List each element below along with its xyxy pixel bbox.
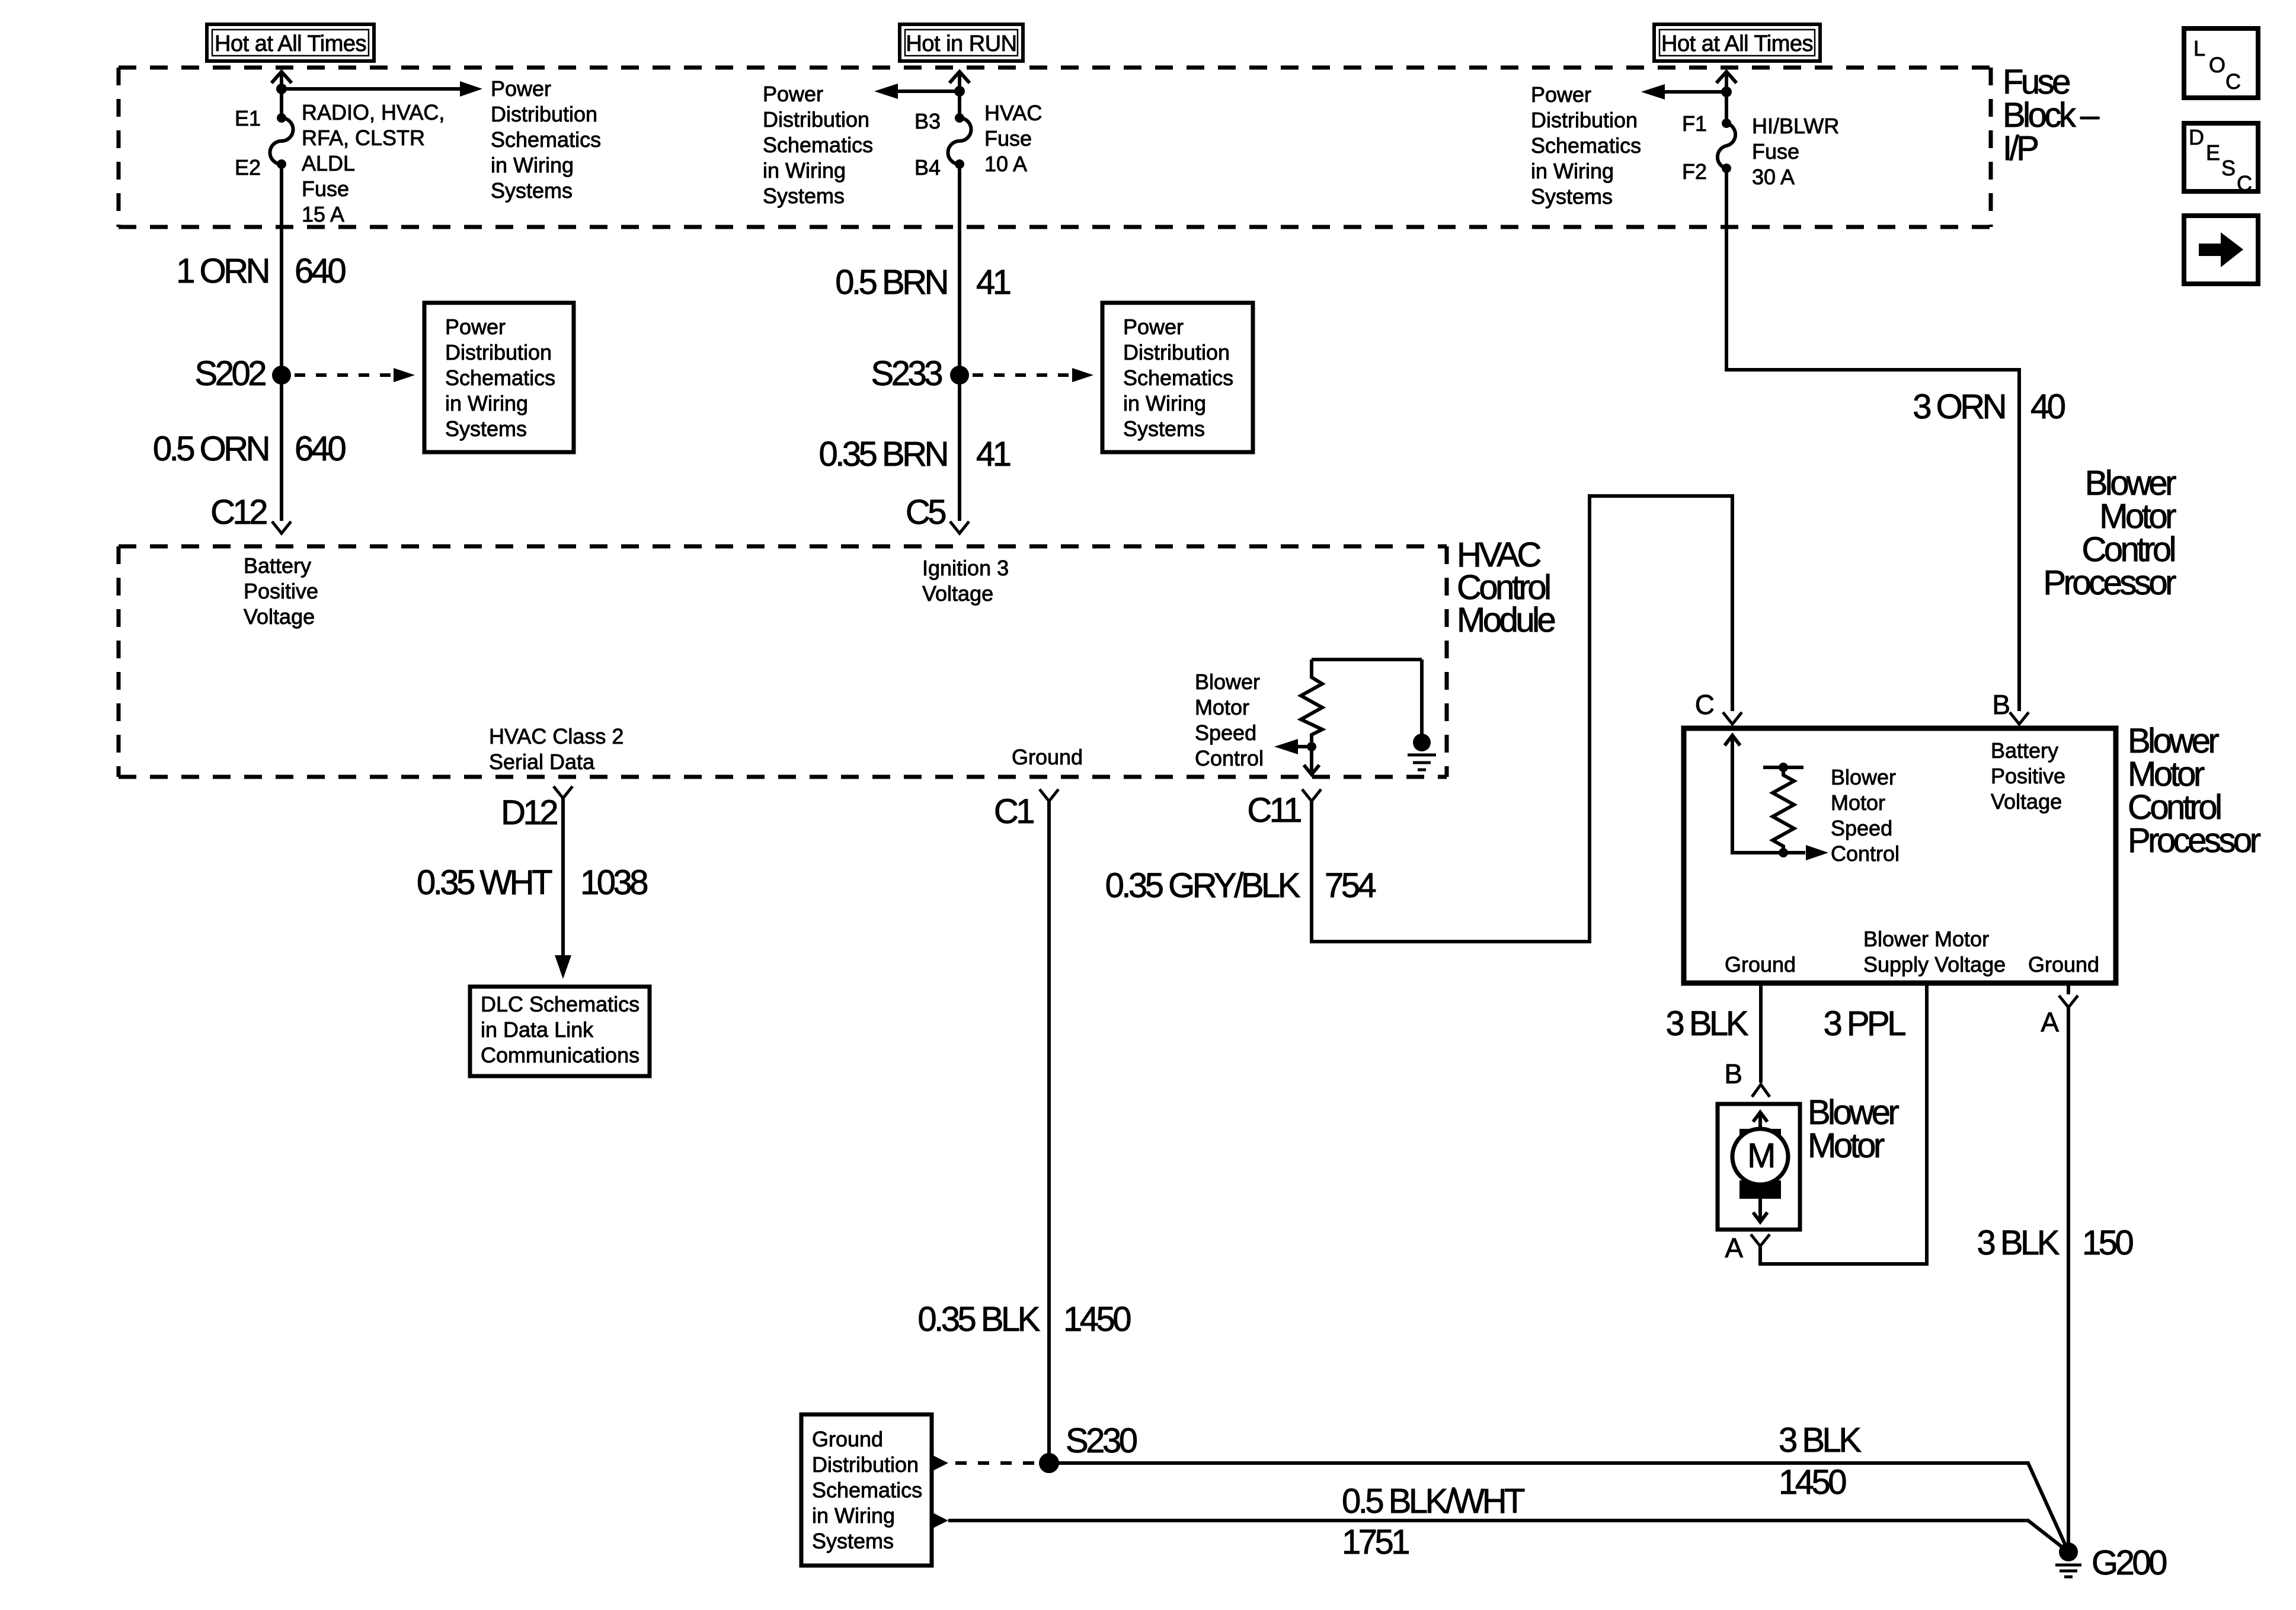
pin E2 [235, 155, 286, 180]
svg-text:Control: Control [1195, 746, 1264, 770]
svg-text:0.35 BLK: 0.35 BLK [917, 1300, 1040, 1339]
svg-text:Control: Control [1831, 841, 1900, 866]
svg-text:Distribution: Distribution [491, 102, 597, 126]
fuse block I/P dashed box [119, 68, 1991, 227]
resistor blower motor speed control HVAC [1301, 660, 1422, 742]
svg-text:Hot at All Times: Hot at All Times [1661, 31, 1813, 56]
svg-text:3 BLK: 3 BLK [1779, 1421, 1862, 1459]
svg-text:Distribution: Distribution [1531, 108, 1638, 132]
svg-text:40: 40 [2030, 388, 2065, 426]
pin F2 [1682, 159, 1731, 184]
svg-text:in Wiring: in Wiring [1123, 391, 1206, 415]
svg-text:HVAC: HVAC [984, 101, 1042, 125]
svg-text:Schematics: Schematics [812, 1478, 922, 1502]
svg-text:1450: 1450 [1779, 1463, 1846, 1502]
note box power distribution schematics S202 [424, 303, 574, 452]
connector D12 [501, 786, 573, 832]
svg-text:Power: Power [763, 82, 823, 106]
wire 0.35 BRN 41 [819, 375, 1011, 521]
arrow out ground distribution lower [932, 1512, 948, 1529]
svg-text:0.5 ORN: 0.5 ORN [153, 430, 268, 468]
wire arrow down to C11 [1304, 747, 1319, 774]
label blower motor [1808, 1093, 1899, 1165]
svg-text:E2: E2 [235, 155, 261, 180]
svg-text:L: L [2193, 36, 2205, 60]
svg-text:Battery: Battery [1991, 738, 2058, 763]
svg-text:C12: C12 [210, 493, 267, 532]
icon DESC [2184, 123, 2258, 196]
svg-text:D: D [2189, 125, 2204, 149]
svg-text:Systems: Systems [763, 184, 845, 208]
svg-text:Schematics: Schematics [1123, 366, 1233, 390]
svg-text:640: 640 [295, 252, 346, 290]
wire 0.5 ORN 640 [153, 375, 346, 521]
note power distribution schematics col2 [763, 82, 873, 208]
node battery positive voltage [244, 553, 318, 629]
svg-text:A: A [2041, 1007, 2059, 1038]
svg-text:S202: S202 [195, 354, 266, 393]
splice S233 [871, 354, 969, 393]
svg-text:Motor: Motor [1831, 790, 1885, 815]
svg-text:RFA, CLSTR: RFA, CLSTR [302, 126, 425, 150]
wire battery feed arrow up col1 [271, 72, 292, 89]
svg-text:0.5 BRN: 0.5 BRN [835, 263, 946, 302]
wire arrow to power distribution schematics col2 [874, 84, 960, 99]
arrow right speed control processor [1806, 845, 1828, 860]
node battery positive voltage processor [1991, 738, 2065, 814]
svg-text:1 ORN: 1 ORN [176, 252, 268, 290]
node HVAC class 2 serial data [489, 724, 623, 774]
splice S202 [195, 354, 291, 393]
arrow out ground distribution upper [932, 1455, 948, 1471]
wire 0.35 GRY/BLK 754 from C11 to processor C [1105, 496, 1732, 942]
svg-text:0.35 GRY/BLK: 0.35 GRY/BLK [1105, 866, 1301, 905]
label blower motor control processor right [2128, 722, 2261, 860]
blower motor M [1718, 1104, 1800, 1230]
blower motor control processor box [1684, 728, 2116, 983]
svg-text:Hot at All Times: Hot at All Times [215, 31, 366, 56]
svg-text:Systems: Systems [1531, 184, 1613, 209]
connector C1 [994, 789, 1059, 831]
wire arrow to power distribution schematics col1 [282, 81, 482, 97]
svg-text:Voltage: Voltage [244, 604, 315, 629]
label blower motor control processor upper [2043, 464, 2176, 602]
svg-text:Blower Motor: Blower Motor [1863, 927, 1989, 951]
svg-text:C1: C1 [994, 792, 1034, 831]
svg-text:41: 41 [976, 263, 1011, 302]
fuse RADIO HVAC RFA CLSTR ALDL 15A [270, 100, 445, 226]
svg-text:Speed: Speed [1831, 816, 1892, 840]
svg-text:M: M [1747, 1137, 1773, 1175]
svg-text:150: 150 [2082, 1224, 2133, 1262]
svg-text:E: E [2206, 140, 2220, 165]
svg-text:Battery: Battery [244, 553, 311, 578]
svg-text:B: B [1992, 689, 2010, 720]
wire internal C arrow up [1725, 735, 1805, 853]
svg-text:HI/BLWR: HI/BLWR [1752, 114, 1839, 138]
fuse HVAC 10A [948, 101, 1043, 176]
svg-text:Positive: Positive [244, 579, 318, 603]
svg-text:Processor: Processor [2128, 821, 2261, 860]
node resistor bottom junction [1779, 848, 1788, 857]
node speed control junction HVAC [1307, 742, 1316, 751]
Hot at All Times box left [207, 24, 374, 61]
svg-text:Ground: Ground [812, 1427, 883, 1451]
wire col1 top [280, 89, 283, 118]
svg-text:in Wiring: in Wiring [445, 391, 528, 415]
svg-text:3 PPL: 3 PPL [1824, 1004, 1906, 1043]
svg-text:RADIO, HVAC,: RADIO, HVAC, [302, 100, 445, 124]
svg-text:3 BLK: 3 BLK [1666, 1004, 1749, 1043]
wire arrow left speed control [1274, 739, 1312, 754]
svg-text:F2: F2 [1682, 159, 1707, 184]
icon LOC [2184, 28, 2258, 98]
svg-text:Power: Power [1531, 82, 1591, 107]
pin B3 [914, 109, 964, 133]
fuse HI/BLWR 30A [1718, 114, 1839, 189]
svg-text:0.5 BLK/WHT: 0.5 BLK/WHT [1342, 1482, 1525, 1521]
svg-text:Systems: Systems [1123, 417, 1205, 441]
wire 3 ORN 40 to processor [1726, 168, 2065, 711]
dashed arrow S202 to power distribution [295, 368, 415, 382]
svg-text:C: C [2237, 171, 2252, 196]
svg-text:Distribution: Distribution [1123, 340, 1230, 364]
svg-text:3 ORN: 3 ORN [1913, 388, 2004, 426]
svg-text:1038: 1038 [580, 863, 647, 902]
svg-text:B: B [1724, 1058, 1742, 1089]
wire 3 BLK 1450 to G200 [1049, 1421, 2067, 1548]
svg-text:D12: D12 [501, 793, 557, 832]
svg-text:in Wiring: in Wiring [1531, 159, 1614, 183]
wire 3 BLK 150 [1977, 1007, 2133, 1544]
svg-text:Power: Power [445, 315, 506, 339]
note power distribution schematics col1 [491, 76, 601, 203]
dashed arrow S233 to power distribution [973, 368, 1093, 382]
wire col2 top [958, 91, 961, 118]
svg-text:Power: Power [1123, 315, 1184, 339]
splice S230 [1039, 1422, 1137, 1473]
wire 0.5 BRN 41 [835, 164, 1010, 375]
svg-text:DLC Schematics: DLC Schematics [481, 992, 639, 1016]
svg-text:Hot in RUN: Hot in RUN [906, 31, 1016, 56]
svg-text:Blower: Blower [1831, 765, 1896, 789]
svg-text:B3: B3 [914, 109, 941, 133]
wire battery feed arrow up col3 [1716, 72, 1737, 92]
label blower motor speed control processor [1831, 765, 1900, 866]
svg-text:C11: C11 [1247, 791, 1301, 830]
wire 0.5 BLK/WHT 1751 to G200 [948, 1482, 2066, 1561]
junction node col1 [276, 84, 287, 94]
svg-text:Fuse: Fuse [1752, 139, 1799, 164]
svg-text:30 A: 30 A [1752, 165, 1795, 189]
fuse block label Fuse Block - I/P [2003, 63, 2100, 168]
svg-text:B4: B4 [914, 155, 941, 180]
svg-text:Schematics: Schematics [763, 133, 873, 157]
Hot at All Times box right [1654, 24, 1820, 61]
svg-text:Ground: Ground [1725, 952, 1796, 977]
svg-text:Module: Module [1457, 601, 1555, 639]
resistor blower motor speed control processor [1763, 767, 1803, 853]
svg-text:41: 41 [976, 435, 1011, 473]
node resistor top junction [1779, 763, 1788, 772]
ground G200 [2055, 1542, 2166, 1582]
svg-text:Distribution: Distribution [763, 107, 869, 132]
svg-text:Motor: Motor [1195, 695, 1249, 719]
svg-text:0.35 BRN: 0.35 BRN [819, 435, 947, 473]
connector C11 [1247, 789, 1321, 830]
svg-text:in Wiring: in Wiring [763, 158, 846, 183]
svg-text:Ground: Ground [2028, 952, 2099, 977]
connector C12 [210, 493, 291, 533]
svg-text:in Data Link: in Data Link [481, 1017, 594, 1042]
wire 1 ORN 640 [176, 164, 345, 375]
svg-text:Serial Data: Serial Data [489, 750, 595, 774]
ground chassis HVAC [1408, 660, 1436, 770]
pin F1 [1682, 111, 1731, 136]
svg-text:Fuse: Fuse [984, 126, 1032, 151]
svg-text:F1: F1 [1682, 111, 1707, 136]
dashed wire to S230 [955, 1461, 1038, 1465]
svg-text:Systems: Systems [812, 1529, 894, 1553]
wire 3 PPL supply [1760, 983, 1927, 1264]
svg-text:E1: E1 [235, 106, 261, 130]
svg-text:3 BLK: 3 BLK [1977, 1224, 2060, 1262]
svg-text:Systems: Systems [491, 178, 573, 203]
svg-text:754: 754 [1325, 866, 1376, 905]
svg-text:Fuse: Fuse [302, 177, 349, 201]
svg-text:15 A: 15 A [302, 202, 344, 226]
svg-text:O: O [2209, 53, 2225, 77]
svg-text:Ignition 3: Ignition 3 [922, 556, 1009, 580]
svg-text:I/P: I/P [2003, 129, 2038, 168]
svg-text:Schematics: Schematics [1531, 133, 1641, 158]
HVAC control module label [1457, 536, 1555, 639]
svg-text:G200: G200 [2092, 1544, 2166, 1582]
svg-text:1751: 1751 [1342, 1523, 1409, 1561]
wire 0.35 WHT 1038 [417, 798, 647, 957]
node ignition 3 voltage [922, 556, 1009, 606]
Hot in RUN box [900, 24, 1023, 61]
svg-text:Power: Power [491, 76, 551, 101]
svg-text:Speed: Speed [1195, 721, 1256, 745]
svg-text:Blower: Blower [1195, 670, 1260, 694]
svg-text:Communications: Communications [481, 1043, 639, 1067]
pin C processor [1695, 689, 1742, 724]
pin E1 [235, 106, 286, 130]
svg-text:Voltage: Voltage [922, 581, 993, 606]
svg-text:Processor: Processor [2043, 564, 2176, 602]
wire col3 top [1725, 92, 1728, 123]
pin B blower motor [1724, 1058, 1770, 1097]
arrow into DLC box [555, 955, 571, 979]
svg-text:10 A: 10 A [984, 152, 1027, 176]
svg-text:0.35 WHT: 0.35 WHT [417, 863, 552, 902]
svg-text:Positive: Positive [1991, 764, 2065, 788]
pin blower motor supply voltage [1863, 927, 2006, 977]
svg-text:A: A [1725, 1233, 1743, 1263]
note power distribution schematics col3 [1531, 82, 1641, 209]
note box ground distribution schematics [801, 1414, 932, 1566]
pin A blower motor [1725, 1233, 1770, 1263]
note box DLC schematics [470, 987, 650, 1076]
svg-text:Ground: Ground [1012, 745, 1083, 769]
svg-text:Schematics: Schematics [491, 127, 601, 152]
pin B processor [1992, 689, 2029, 724]
svg-text:in Wiring: in Wiring [491, 153, 574, 177]
svg-text:HVAC Class 2: HVAC Class 2 [489, 724, 623, 748]
HVAC control module dashed box [119, 546, 1447, 777]
connector C5 [906, 493, 969, 533]
junction node col3 [1721, 87, 1732, 97]
svg-text:ALDL: ALDL [302, 151, 355, 175]
svg-text:Systems: Systems [445, 417, 527, 441]
icon arrow next [2184, 216, 2258, 284]
svg-text:Distribution: Distribution [812, 1452, 919, 1477]
svg-text:Schematics: Schematics [445, 366, 555, 390]
svg-text:C: C [1695, 689, 1715, 720]
svg-text:in Wiring: in Wiring [812, 1503, 895, 1528]
wire arrow to power distribution schematics col3 [1641, 84, 1726, 100]
svg-text:C: C [2225, 69, 2241, 94]
wire ignition feed arrow up col2 [949, 72, 970, 91]
wire 0.35 BLK 1450 from C1 [917, 801, 1130, 1463]
svg-text:Voltage: Voltage [1991, 789, 2062, 814]
svg-text:S: S [2221, 156, 2236, 180]
svg-text:1450: 1450 [1063, 1300, 1130, 1339]
label blower motor speed control HVAC [1195, 670, 1264, 770]
svg-text:Motor: Motor [1808, 1126, 1885, 1165]
junction node col2 [954, 86, 965, 97]
svg-text:C5: C5 [906, 493, 945, 532]
svg-text:Supply Voltage: Supply Voltage [1863, 952, 2006, 977]
wire 3 BLK to blower motor B [1666, 983, 1761, 1083]
pin A processor ground [2041, 983, 2078, 1038]
note box power distribution schematics S233 [1102, 303, 1253, 452]
svg-text:640: 640 [295, 430, 346, 468]
pin B4 [914, 155, 964, 180]
svg-text:S230: S230 [1066, 1422, 1137, 1460]
svg-text:Distribution: Distribution [445, 340, 552, 364]
svg-text:S233: S233 [871, 354, 942, 393]
